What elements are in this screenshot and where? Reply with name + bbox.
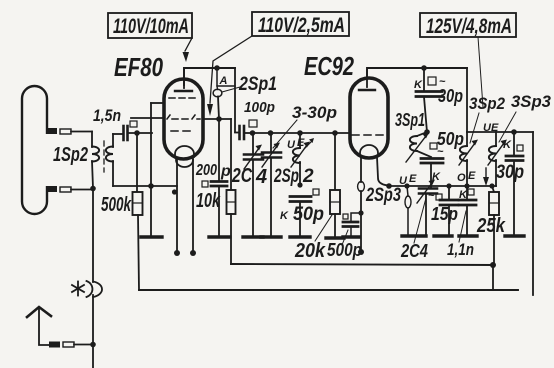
EC92 grid dashes: [352, 134, 383, 136]
folded dipole antenna: [22, 86, 47, 214]
EF80 heater/cathode leg 2: [190, 158, 196, 256]
resistor 500k: [133, 133, 143, 290]
svg-text:4: 4: [255, 166, 267, 188]
capacitor 15p: [440, 186, 458, 235]
svg-text:K: K: [503, 139, 512, 151]
svg-text:110V/2,5mA: 110V/2,5mA: [258, 14, 345, 37]
wire g1 stub: [131, 117, 164, 119]
ground (1,1n): [459, 234, 477, 237]
svg-text:2Sp3: 2Sp3: [365, 185, 401, 206]
svg-text:20k: 20k: [294, 240, 326, 262]
node g3/ground wire: [148, 183, 154, 189]
capacitor 200p: [211, 119, 227, 235]
resistor 20k: [330, 133, 340, 237]
capacitor 500p: [343, 213, 361, 236]
arrow terminal block: [49, 342, 60, 348]
svg-text:3Sp3: 3Sp3: [511, 92, 552, 111]
capacitor K 50p (cathode): [290, 197, 311, 237]
node grid EF80: [134, 130, 140, 136]
svg-text:3-30p: 3-30p: [292, 103, 337, 122]
wire g3 down to ground wire: [150, 103, 152, 236]
ground (2C4 first): [243, 235, 263, 238]
coil 1Sp2 secondary: [106, 134, 113, 186]
leader 3-30p: [273, 120, 297, 148]
svg-text:30p: 30p: [496, 162, 524, 183]
EF80 cathode arc: [175, 146, 194, 157]
marker square 100p: [249, 120, 257, 127]
inner bus wire: [231, 264, 493, 265]
callout box 125V/4,8mA: [420, 13, 516, 38]
leader 3Sp3: [499, 112, 516, 142]
node 2Sp2: [297, 130, 303, 136]
outer bus wire: [139, 289, 518, 291]
node 30p top: [421, 65, 427, 71]
node 2Sp2/K50p: [297, 182, 302, 187]
svg-text:125V/4,8mA: 125V/4,8mA: [426, 15, 512, 38]
capacitor 1,1n: [459, 186, 476, 235]
wire to antenna line: [74, 344, 93, 346]
svg-text:500p: 500p: [327, 240, 362, 260]
svg-text:U: U: [287, 139, 296, 151]
svg-text:A: A: [219, 75, 228, 87]
wire EF80 anode to top rail: [184, 68, 235, 85]
leader 2C4 second: [414, 198, 426, 243]
svg-text:K: K: [280, 210, 289, 222]
variable coil 2Sp2: [291, 133, 310, 185]
node inner bus / 25k: [490, 262, 496, 268]
UE arrow (2Sp2): [305, 141, 312, 148]
svg-text:2: 2: [302, 166, 314, 187]
marker square 50p: [430, 143, 437, 149]
svg-text:~: ~: [428, 190, 435, 202]
wire 25k node to outer bus: [492, 265, 494, 290]
capacitor 100p (coupling): [235, 126, 252, 139]
capacitor 1,5n: [113, 126, 152, 140]
capacitor 30p (right): [506, 132, 523, 235]
leader 2Sp1: [222, 87, 240, 92]
svg-text:100p: 100p: [244, 99, 275, 116]
node dipole lower: [90, 186, 96, 192]
capacitor 50p (series): [421, 159, 443, 188]
EF80 grid g1 dashes: [171, 130, 190, 132]
node g2: [216, 116, 222, 122]
trimmer capacitor 2C4 (second): [417, 180, 437, 236]
svg-text:30p: 30p: [438, 86, 463, 106]
OE down arrow: [483, 168, 489, 186]
cathode bus wire: [389, 185, 496, 187]
variable coil 3Sp2: [459, 132, 478, 186]
leader arrow from 110V/2,5mA box to EF80 g2 wire: [207, 36, 252, 116]
coupling loop (cathode): [405, 186, 411, 235]
dipole upper terminal block: [46, 128, 92, 134]
trimmer capacitor 3-30p: [262, 133, 281, 235]
ground (g3/cathode): [141, 235, 162, 238]
coil core dashed line: [103, 141, 105, 172]
resistor 10k: [227, 119, 236, 264]
leader line from 125V/4,8mA box: [478, 37, 483, 107]
svg-text:1Sp2: 1Sp2: [53, 144, 88, 166]
svg-text:2C: 2C: [231, 165, 252, 187]
wire right rail down: [532, 132, 534, 295]
marker square (30p right): [517, 145, 523, 151]
svg-text:2Sp: 2Sp: [273, 166, 299, 187]
coil 2Sp3 (cathode loop): [358, 157, 365, 255]
EC92 cathode arc: [360, 145, 378, 156]
wire down to 100p: [234, 68, 236, 132]
node cathode EC92: [386, 183, 392, 189]
svg-text:200: 200: [195, 162, 217, 179]
svg-text:E: E: [297, 137, 305, 149]
svg-text:O: O: [457, 172, 466, 184]
marker square 200p: [202, 181, 208, 187]
callout box 110V/2,5mA: [252, 12, 349, 37]
cathode wire EC92 down right: [377, 157, 389, 186]
antenna down line with hop: [93, 189, 102, 368]
EF80 grid g3 dashes: [169, 97, 195, 99]
svg-text:E: E: [468, 170, 476, 182]
svg-text:3Sp2: 3Sp2: [469, 94, 505, 113]
ground (500p): [343, 235, 359, 238]
svg-text:50p: 50p: [437, 129, 464, 149]
svg-text:K: K: [414, 79, 423, 91]
node loop branch: [404, 183, 409, 188]
leader 3Sp2: [470, 113, 479, 143]
leader 20k: [315, 215, 332, 241]
coil 1Sp2 primary: [92, 132, 99, 189]
leader 500p: [342, 230, 348, 245]
svg-text:10k: 10k: [196, 190, 221, 212]
node cathode leg: [172, 189, 177, 194]
svg-text:K: K: [459, 189, 468, 201]
ground (3-30p): [261, 235, 281, 238]
svg-text:E: E: [409, 173, 417, 185]
ground (loop + 2C4): [402, 234, 426, 237]
ground (200p): [209, 235, 230, 238]
wire 2Sp1 to g2 node: [218, 97, 219, 120]
svg-text:1,1n: 1,1n: [447, 240, 474, 259]
trimmer capacitor 2C4 (first): [244, 133, 263, 235]
ground (30p right): [505, 234, 524, 237]
ground (K50p): [290, 235, 310, 238]
wire top rail corner down: [466, 68, 468, 132]
svg-text:p: p: [220, 163, 231, 180]
svg-text:25k: 25k: [476, 215, 506, 237]
wire g3 stub: [151, 102, 164, 104]
variable coil 3Sp3: [488, 132, 507, 186]
svg-text:50p: 50p: [293, 204, 324, 225]
svg-text:2C4: 2C4: [400, 241, 428, 261]
node anode/2Sp1: [214, 65, 220, 71]
tube U2 EC92 envelope: [350, 78, 388, 158]
svg-text:EF80: EF80: [114, 52, 163, 82]
wire grid jog to tube: [151, 118, 153, 133]
arrow terminal open: [63, 342, 74, 347]
dipole lower terminal block: [46, 186, 93, 192]
wire grid line to EC92: [252, 132, 350, 134]
ground (20k): [326, 236, 344, 239]
EF80 grid g2 dashes: [167, 115, 200, 119]
node 30p right: [511, 129, 517, 135]
EF80 anode: [175, 68, 192, 91]
node 500p tap: [358, 210, 363, 215]
svg-text:EC92: EC92: [304, 51, 354, 81]
resistor 25k: [489, 186, 499, 265]
node 20k: [332, 130, 338, 136]
callout box 110V/10mA: [108, 13, 192, 38]
EC92 anode: [359, 70, 375, 90]
node 3-30p: [268, 130, 274, 136]
marker square 500p: [343, 214, 348, 219]
svg-text:110V/10mA: 110V/10mA: [113, 15, 189, 38]
marker square 1,5n: [130, 121, 137, 127]
svg-text:2Sp1: 2Sp1: [238, 74, 277, 95]
node antenna line bottom: [90, 342, 96, 348]
wire cathode return: [113, 185, 177, 187]
svg-text:1,5n: 1,5n: [93, 106, 121, 125]
tube U1 EF80 envelope: [164, 79, 203, 159]
leader arrow from 110V/10mA box to EF80 anode wire: [183, 38, 193, 62]
node 15p: [446, 183, 451, 188]
marker square K50p: [313, 189, 319, 195]
EF80 heater/cathode leg 1: [174, 158, 180, 256]
marker square (top 30p): [428, 77, 436, 85]
EF80 heater arc: [176, 160, 193, 167]
measuring point box A: [217, 68, 235, 90]
leader 1,1n: [459, 211, 466, 242]
antenna arrow symbol: [27, 307, 51, 345]
wire g2 EF80 to 10k corner: [204, 118, 231, 120]
node 100p/2C4: [250, 130, 256, 136]
node 3Sp2 bottom: [464, 183, 469, 188]
wire EC92 anode to top rail: [367, 68, 467, 78]
node 3Sp1 chain: [424, 129, 430, 135]
dipole gap mask: [42, 134, 50, 186]
coil 2Sp1 loop: [213, 89, 222, 97]
footnote mark *): [72, 281, 92, 297]
variable coil 3Sp1: [406, 132, 431, 162]
ground (15p): [434, 234, 452, 237]
svg-text:500k: 500k: [101, 194, 132, 216]
svg-text:15p: 15p: [431, 204, 458, 224]
svg-text:3Sp1: 3Sp1: [395, 110, 425, 130]
capacitor 30p (anode): [416, 68, 442, 132]
node 3Sp3 bottom: [489, 183, 494, 188]
wire right rail y132: [467, 131, 533, 133]
